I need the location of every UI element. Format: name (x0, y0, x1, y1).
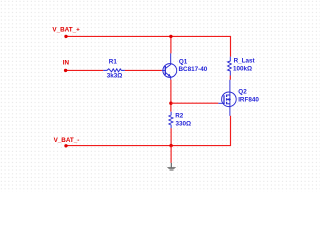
svg-text:IRF840: IRF840 (238, 96, 259, 103)
svg-text:100kΩ: 100kΩ (233, 66, 252, 73)
ground (167, 163, 176, 171)
node V_BAT_+ (64, 35, 67, 38)
transistor Q1 (162, 53, 177, 79)
resistor R_Last (228, 57, 232, 76)
wire top rail to Q1 collector (170, 36, 172, 53)
wire gate node to Q2 gate (171, 102, 218, 104)
wire Q1 emitter down to gate node (170, 80, 172, 112)
wire V_BAT_+ top rail (66, 36, 231, 56)
wire IN to R1 (66, 69, 103, 71)
node junction top rail / Q1 collector (169, 35, 172, 38)
svg-text:BC817-40: BC817-40 (179, 66, 208, 73)
node V_BAT_- (64, 144, 67, 147)
resistor R1 (103, 69, 125, 72)
node junction emitter / Q2 gate (169, 102, 172, 105)
svg-text:Q2: Q2 (238, 88, 247, 95)
node IN (64, 69, 67, 72)
node junction R2 / ground (169, 144, 172, 147)
resistor R2 (169, 112, 173, 128)
wire V_BAT_- bottom rail (66, 116, 231, 146)
svg-text:V_BAT_-: V_BAT_- (54, 137, 80, 144)
svg-text:V_BAT_+: V_BAT_+ (52, 27, 80, 34)
svg-text:IN: IN (63, 59, 70, 66)
wire R1 to Q1 base (125, 69, 162, 71)
wire ground stub (170, 146, 172, 163)
transistor Q2 (218, 80, 236, 116)
wire R_Last to Q2 drain (229, 76, 231, 80)
svg-text:R2: R2 (175, 113, 184, 120)
wire R2 to bottom rail (170, 128, 172, 146)
svg-text:Q1: Q1 (179, 59, 188, 66)
svg-text:3k3Ω: 3k3Ω (107, 72, 123, 79)
svg-text:330Ω: 330Ω (176, 120, 192, 127)
svg-text:R1: R1 (109, 59, 118, 66)
svg-text:R_Last: R_Last (234, 58, 256, 65)
